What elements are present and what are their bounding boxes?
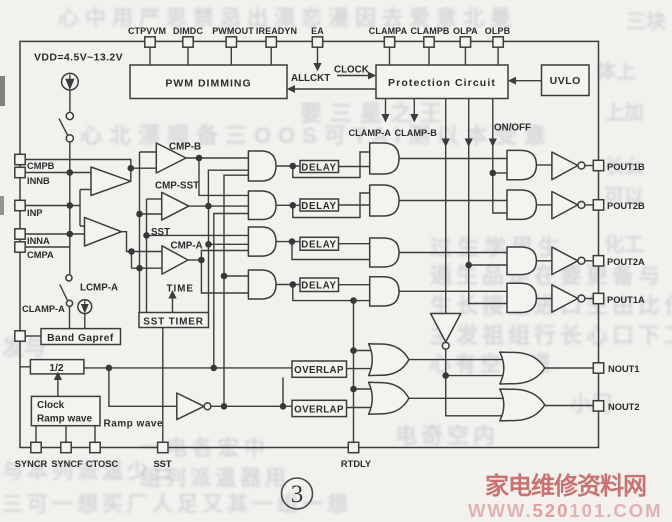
wire H3 output to K3 (399, 252, 507, 254)
pin POUT1A (593, 293, 603, 303)
wire OR B output to OR D (409, 397, 512, 399)
wire CLOCK arrow to Protection (337, 75, 368, 77)
junction DELAY2 in (290, 202, 297, 209)
AND gate G1 (248, 151, 276, 181)
wire K1 output to inverter I1 (536, 164, 552, 166)
pin SST (158, 442, 168, 452)
junction OVERLAP2 in (280, 403, 287, 410)
wire CLAMPB pin to Protection (428, 47, 430, 65)
junction RTDLY OR B (350, 386, 357, 393)
junction VX1 CMP-A lower (136, 265, 143, 272)
junction DELAY1 in (290, 163, 297, 170)
svg-text:NOUT1: NOUT1 (608, 364, 640, 374)
block Protection Circuit (376, 65, 508, 99)
svg-text:1/2: 1/2 (49, 363, 63, 374)
AND gate G4 (248, 270, 276, 299)
pin OLPA (460, 37, 470, 47)
svg-text:NOUT2: NOUT2 (608, 402, 640, 412)
wire 1/2 output ramp line to OVERLAP1 (84, 367, 292, 369)
block DELAY 3 (300, 237, 339, 250)
svg-text:CLAMP-A: CLAMP-A (349, 128, 392, 138)
svg-text:DELAY: DELAY (301, 240, 336, 251)
junction SST timer feed (205, 241, 212, 248)
svg-text:CMP-A: CMP-A (171, 241, 203, 252)
wire vertical VX2 x146 (146, 199, 148, 313)
junction CMPB/U1 (128, 165, 135, 172)
wire DELAY2 output to H2 (339, 204, 370, 206)
svg-text:OLPA: OLPA (453, 26, 478, 36)
svg-text:INP: INP (27, 208, 43, 218)
arrowhead bus x445 down (442, 139, 450, 148)
IC outer border (20, 41, 599, 447)
junction bus468 K3 (465, 262, 472, 269)
AND gate H4 (370, 277, 399, 306)
wire CTOSC pin to clock block (94, 426, 96, 443)
wire DELAY3 output to H3 (339, 243, 370, 245)
pin PWMOUT (226, 37, 236, 47)
AND gate G3 (248, 227, 276, 256)
pin INNA (15, 229, 25, 239)
svg-text:Clock: Clock (37, 400, 65, 411)
wire G3 output to DELAY3 (276, 241, 300, 243)
svg-text:Band Gapref: Band Gapref (47, 333, 114, 344)
wire ramp bus V4 x224 G1 bottom (224, 175, 248, 406)
svg-text:CLAMP-A: CLAMP-A (22, 304, 65, 314)
svg-text:OLPB: OLPB (485, 26, 511, 36)
wire I4 to POUT1A pin (585, 298, 593, 300)
wire K3 output to inverter I3 (536, 260, 552, 262)
wire PWMOUT pin to PWM DIMMING (230, 47, 232, 65)
junction RTDLY top (350, 297, 357, 304)
arrowhead CLAMP-A down (381, 114, 389, 123)
junction CMP-A out (198, 257, 205, 264)
pin POUT2A (593, 256, 603, 266)
arrowhead bus x492 down (489, 139, 497, 148)
wire SYNCR pin to clock block (35, 426, 37, 443)
pin SYNCR (31, 442, 41, 452)
wire CMP-SST to SST TIMER vertical (208, 206, 210, 312)
wire CMPB pin right then down to junction (25, 160, 131, 169)
wire OR C output to NOUT1 pin (545, 367, 594, 369)
junction bias INP (67, 202, 74, 209)
op-amp U2 (85, 217, 122, 246)
pin DIMDC (183, 37, 193, 47)
wire branch up to OVERLAP1 bottom (282, 377, 284, 406)
wire I3 to POUT2A pin (585, 260, 593, 262)
wire down inverter branch to OR C bottom (446, 375, 512, 377)
svg-text:CLOCK: CLOCK (334, 65, 369, 76)
wire DELAY2 bypass to H2 top (293, 193, 370, 218)
junction CMP-B out (196, 155, 203, 162)
wire CMP-SST upper jog (147, 198, 162, 200)
svg-text:CTPVVM: CTPVVM (128, 26, 166, 36)
wire CMP-A output (188, 259, 201, 261)
wire bus x468 branch to K3 (469, 264, 507, 266)
comparator CMP-A (162, 246, 188, 274)
svg-text:OVERLAP: OVERLAP (294, 365, 344, 376)
wire ALLCKT arrow from Protection to PWM DIMMING (295, 88, 376, 90)
wire G2 output to DELAY2 (276, 204, 300, 206)
wire OR A output to OR C (409, 359, 512, 361)
wire down inverter output (446, 350, 512, 416)
switch SW1 contact top (66, 112, 73, 119)
wire V4 branch to G4 top (224, 275, 248, 277)
pin CTOSC (90, 442, 100, 452)
wire NOT output to OVERLAP2 (211, 405, 292, 407)
pin EA (312, 37, 322, 47)
wire RTDLY branch to OR B top (354, 388, 378, 390)
pin CMPB (15, 154, 25, 164)
svg-text:Ramp wave: Ramp wave (104, 419, 164, 430)
AND gate G2 (248, 191, 276, 220)
pin NOUT1 (593, 363, 603, 373)
wire opamp U2 output to CMP-A upper input (121, 232, 162, 252)
pin RTDLY (348, 442, 358, 452)
junction NOT out V4 (221, 403, 228, 410)
svg-text:SST TIMER: SST TIMER (143, 316, 204, 327)
AND gate K3 (507, 247, 536, 275)
wire TIME arrow stem (172, 297, 174, 313)
pin SYNCF (61, 442, 71, 452)
junction VX1 CMP-SST in (136, 211, 143, 218)
svg-text:POUT1A: POUT1A (607, 295, 645, 305)
svg-text:POUT2A: POUT2A (607, 257, 645, 267)
pin POUT2B (593, 200, 603, 210)
wire Protection output bus x468 to K3 K4 (469, 99, 507, 304)
wire OR D output to NOUT2 pin (545, 405, 594, 407)
wire CMP-B output branch to G2 (199, 158, 248, 195)
wire switch2 to Band Gapref (69, 306, 71, 328)
faint bleed-through background text (58, 2, 517, 32)
wire Protection output ON/OFF bus x492 to K1 K2 (493, 99, 507, 214)
AND gate K2 (507, 190, 536, 219)
svg-text:CLAMPA: CLAMPA (369, 26, 408, 36)
block DELAY 2 (300, 199, 339, 211)
pin CMPA (15, 242, 25, 252)
arrowhead bus x468 down (465, 139, 473, 148)
wire current source I2 to Band Gapref (84, 314, 86, 329)
wire INNA pin to opamp U2 (25, 233, 84, 235)
wire SST TIMER to SST pin (162, 328, 164, 443)
inverter V1 pointing down (431, 314, 461, 343)
inverter I4 (552, 285, 578, 312)
AND gate H2 (370, 185, 399, 216)
wire ramp bus V3 x214 G2 bottom (214, 214, 249, 368)
OR gate A (369, 344, 409, 376)
junction ON/OFF K1 (490, 170, 497, 177)
switch SW2 contact bottom (66, 300, 72, 306)
wire EA pin down (317, 47, 319, 63)
wire CMP-A upper feed down (131, 252, 133, 269)
arrowhead 1/2 up (54, 372, 62, 381)
wire H1 output to K1 (399, 158, 507, 160)
wire Protection output CLAMP-B short (413, 99, 415, 115)
wire OLPA pin to Protection (464, 47, 466, 65)
svg-text:Protection Circuit: Protection Circuit (388, 77, 496, 89)
comparator CMP-SST (162, 192, 189, 220)
svg-text:DELAY: DELAY (301, 162, 336, 173)
wire junction to CMP-B input (131, 167, 157, 169)
pin CLAMPB (424, 37, 434, 47)
junction CMP-SST out (205, 203, 212, 210)
svg-text:SYNCF: SYNCF (51, 459, 83, 469)
wire DELAY1 output to H1 (339, 166, 370, 168)
wire ramp line down to NOT input (109, 368, 177, 406)
wire VX1 to CMP-SST lower input (140, 213, 162, 215)
wire RTDLY branch to OR A top (354, 350, 378, 352)
svg-text:VDD=4.5V~13.2V: VDD=4.5V~13.2V (34, 52, 123, 64)
pin CLAMPA (384, 37, 394, 47)
wire SYNCF pin to clock block (65, 426, 67, 443)
wire border to 1/2 (20, 366, 30, 368)
svg-text:CLAMPB: CLAMPB (410, 26, 449, 36)
inverter I3 (552, 247, 578, 274)
pin POUT1B (593, 160, 603, 170)
junction V3 ramp (211, 365, 218, 372)
block PWM DIMMING (130, 65, 287, 99)
svg-text:3: 3 (291, 481, 304, 508)
current source I2 arrow (82, 301, 88, 313)
svg-text:CMP-B: CMP-B (169, 142, 201, 153)
junction RTDLY OR A (350, 347, 357, 354)
svg-text:Ramp wave: Ramp wave (37, 414, 92, 425)
inverter I2 (552, 192, 578, 219)
wire CMP-B output to G1 (186, 157, 248, 159)
AND gate K4 (507, 283, 536, 312)
wire Protection output CLAMP-A short (385, 99, 387, 115)
wire H4 output to K4 (399, 290, 507, 292)
wire CLAMP-A pin to Band Gapref (25, 335, 41, 337)
arrowhead EA down (313, 63, 321, 72)
wire CMP-A output down to G4 bottom (201, 260, 248, 293)
AND gate K1 (507, 150, 536, 179)
junction CMP-A upper feed (128, 248, 135, 255)
wire opamp U1 output up to CMPB junction (130, 168, 132, 181)
block Clock Ramp wave (31, 396, 100, 425)
svg-text:SST: SST (153, 459, 171, 469)
arrowhead CLAMP-B down (410, 114, 418, 123)
op-amp U1 (91, 167, 131, 196)
svg-text:CMPA: CMPA (27, 250, 54, 260)
NOT gate N1 (177, 393, 204, 420)
pin CTPWM (145, 37, 155, 47)
junction VX2 G3 feed (143, 232, 150, 239)
wire CMP-SST output branch up to G1 (208, 170, 248, 206)
comparator CMP-B (156, 143, 186, 173)
current source I2 (LCMP-A) (78, 300, 92, 314)
block Band Gapref (41, 329, 121, 345)
svg-text:RTDLY: RTDLY (341, 459, 372, 469)
svg-text:INNB: INNB (27, 176, 50, 186)
wire OVERLAP1 output to OR A (347, 368, 378, 370)
inverter I1 (552, 152, 578, 180)
svg-text:EA: EA (311, 26, 324, 36)
wire DELAY1 bypass to H1 top (293, 152, 370, 178)
wire clock to 1/2 arrow stem (57, 379, 59, 397)
wire CMP-A lower input (132, 267, 163, 269)
junction bias INNA (67, 231, 74, 238)
arrowhead CLOCK right (368, 72, 376, 80)
svg-text:ALLCKT: ALLCKT (291, 73, 330, 84)
switch SW1 contact bottom (66, 135, 73, 142)
arrowhead UVLO left (508, 77, 516, 85)
current source I1 arrow (66, 75, 73, 89)
wire CMP-B upper jog (140, 151, 157, 153)
switch SW1 blade (59, 119, 68, 136)
pin NOUT2 (593, 401, 603, 411)
junction bias INNB (67, 169, 74, 176)
svg-text:POUT1B: POUT1B (607, 162, 645, 172)
OR gate B (369, 382, 409, 414)
svg-text:SST: SST (151, 227, 170, 238)
AND gate H1 (370, 143, 399, 174)
svg-text:WWW.520101.COM: WWW.520101.COM (468, 500, 663, 521)
svg-text:POUT2B: POUT2B (607, 201, 645, 211)
wire K4 output to inverter I4 (536, 298, 552, 300)
wire CTPWM pin to PWM DIMMING (149, 47, 151, 65)
current source I1 (62, 73, 79, 90)
svg-text:LCMP-A: LCMP-A (80, 283, 118, 294)
wire CLAMPA pin to Protection (389, 47, 391, 65)
OR gate D (500, 389, 545, 421)
pin INP (15, 200, 25, 210)
switch SW2 contact top (66, 275, 72, 281)
svg-text:TIME: TIME (167, 284, 194, 295)
wire DIMDC pin to PWM DIMMING (187, 47, 189, 65)
arrowhead TIME up (168, 290, 176, 299)
wire H2 output to K2 (399, 200, 507, 202)
junction V4 G4 top (221, 273, 228, 280)
block OVERLAP 2 (292, 400, 347, 416)
wire branch to G3 mid input (209, 243, 249, 245)
svg-text:DIMDC: DIMDC (173, 26, 203, 36)
svg-text:INNA: INNA (27, 236, 50, 246)
pin INNB (15, 167, 25, 177)
wire DELAY4 bypass to H4 bottom (293, 285, 370, 301)
svg-text:PWM DIMMING: PWM DIMMING (165, 78, 251, 90)
wire VX2 branch to G3 top input (147, 234, 249, 236)
OR gate C (500, 352, 545, 384)
wire CMP-SST output to G2 (189, 205, 249, 207)
svg-text:CMP-SST: CMP-SST (155, 181, 199, 192)
wire Protection output bus x445 to down inverter (445, 99, 447, 314)
wire I2 to POUT2B pin (585, 204, 593, 206)
pin IREADYN (266, 37, 276, 47)
svg-text:UVLO: UVLO (550, 75, 581, 87)
arrowhead ALLCKT left (287, 85, 295, 93)
block OVERLAP 1 (292, 361, 347, 377)
wire VDD current source to switch1 (69, 90, 71, 112)
svg-text:IREADYN: IREADYN (256, 26, 297, 36)
junction DELAY4 in (290, 281, 297, 288)
wire vertical VX1 x139 (139, 152, 141, 313)
wire I1 to POUT1B pin (585, 165, 593, 167)
svg-text:DELAY: DELAY (301, 280, 336, 291)
wire OLPB pin to Protection (497, 47, 499, 65)
wire switch1 to bias bus (69, 142, 71, 274)
svg-text:CLAMP-B: CLAMP-B (395, 128, 438, 138)
block UVLO (542, 65, 590, 96)
junction DELAY3 in (289, 238, 296, 245)
block DELAY 1 (300, 161, 339, 173)
svg-text:SYNCR: SYNCR (15, 459, 48, 469)
wire OVERLAP2 output to OR B (347, 407, 378, 409)
wire ON/OFF branch to K1 (493, 172, 507, 174)
svg-text:CMPB: CMPB (27, 161, 55, 171)
block 1/2 (30, 360, 84, 374)
AND gate H3 (370, 238, 399, 267)
svg-text:OVERLAP: OVERLAP (294, 404, 344, 415)
wire DELAY4 output to H4 (339, 284, 370, 286)
wire G4 output to DELAY4 (276, 284, 300, 286)
junction down inverter OR C (442, 372, 449, 379)
svg-text:PWMOUT: PWMOUT (212, 26, 254, 36)
wire CMPA pin to bias bus (25, 246, 70, 248)
switch SW2 blade (60, 285, 68, 301)
wire IREADYN pin to PWM DIMMING (270, 47, 272, 65)
block DELAY 4 (300, 278, 339, 292)
pin CLAMP-A (15, 331, 25, 341)
wire G1 output to DELAY1 (276, 165, 300, 167)
svg-text:CTOSC: CTOSC (86, 459, 119, 469)
wire RTDLY vertical (353, 301, 355, 443)
scan smudge left edge 1 (0, 76, 5, 106)
svg-text:ON/OFF: ON/OFF (494, 123, 531, 134)
svg-text:家电维修资料网: 家电维修资料网 (485, 472, 646, 500)
block SST TIMER (139, 313, 209, 328)
wire INNB pin to opamp U1 (25, 172, 91, 174)
junction ramp down (106, 365, 113, 372)
figure number 3 (282, 478, 313, 509)
wire UVLO to Protection (516, 80, 542, 82)
pin OLPB (493, 37, 503, 47)
wire DELAY3 bypass to H3 bottom (292, 242, 370, 260)
svg-text:DELAY: DELAY (301, 201, 336, 212)
wire CMP-A output up to G3 bottom (201, 251, 248, 261)
wire INP pin to split (25, 190, 91, 227)
wire K2 output to inverter I2 (536, 204, 552, 206)
scan smudge left edge 2 (0, 196, 4, 215)
